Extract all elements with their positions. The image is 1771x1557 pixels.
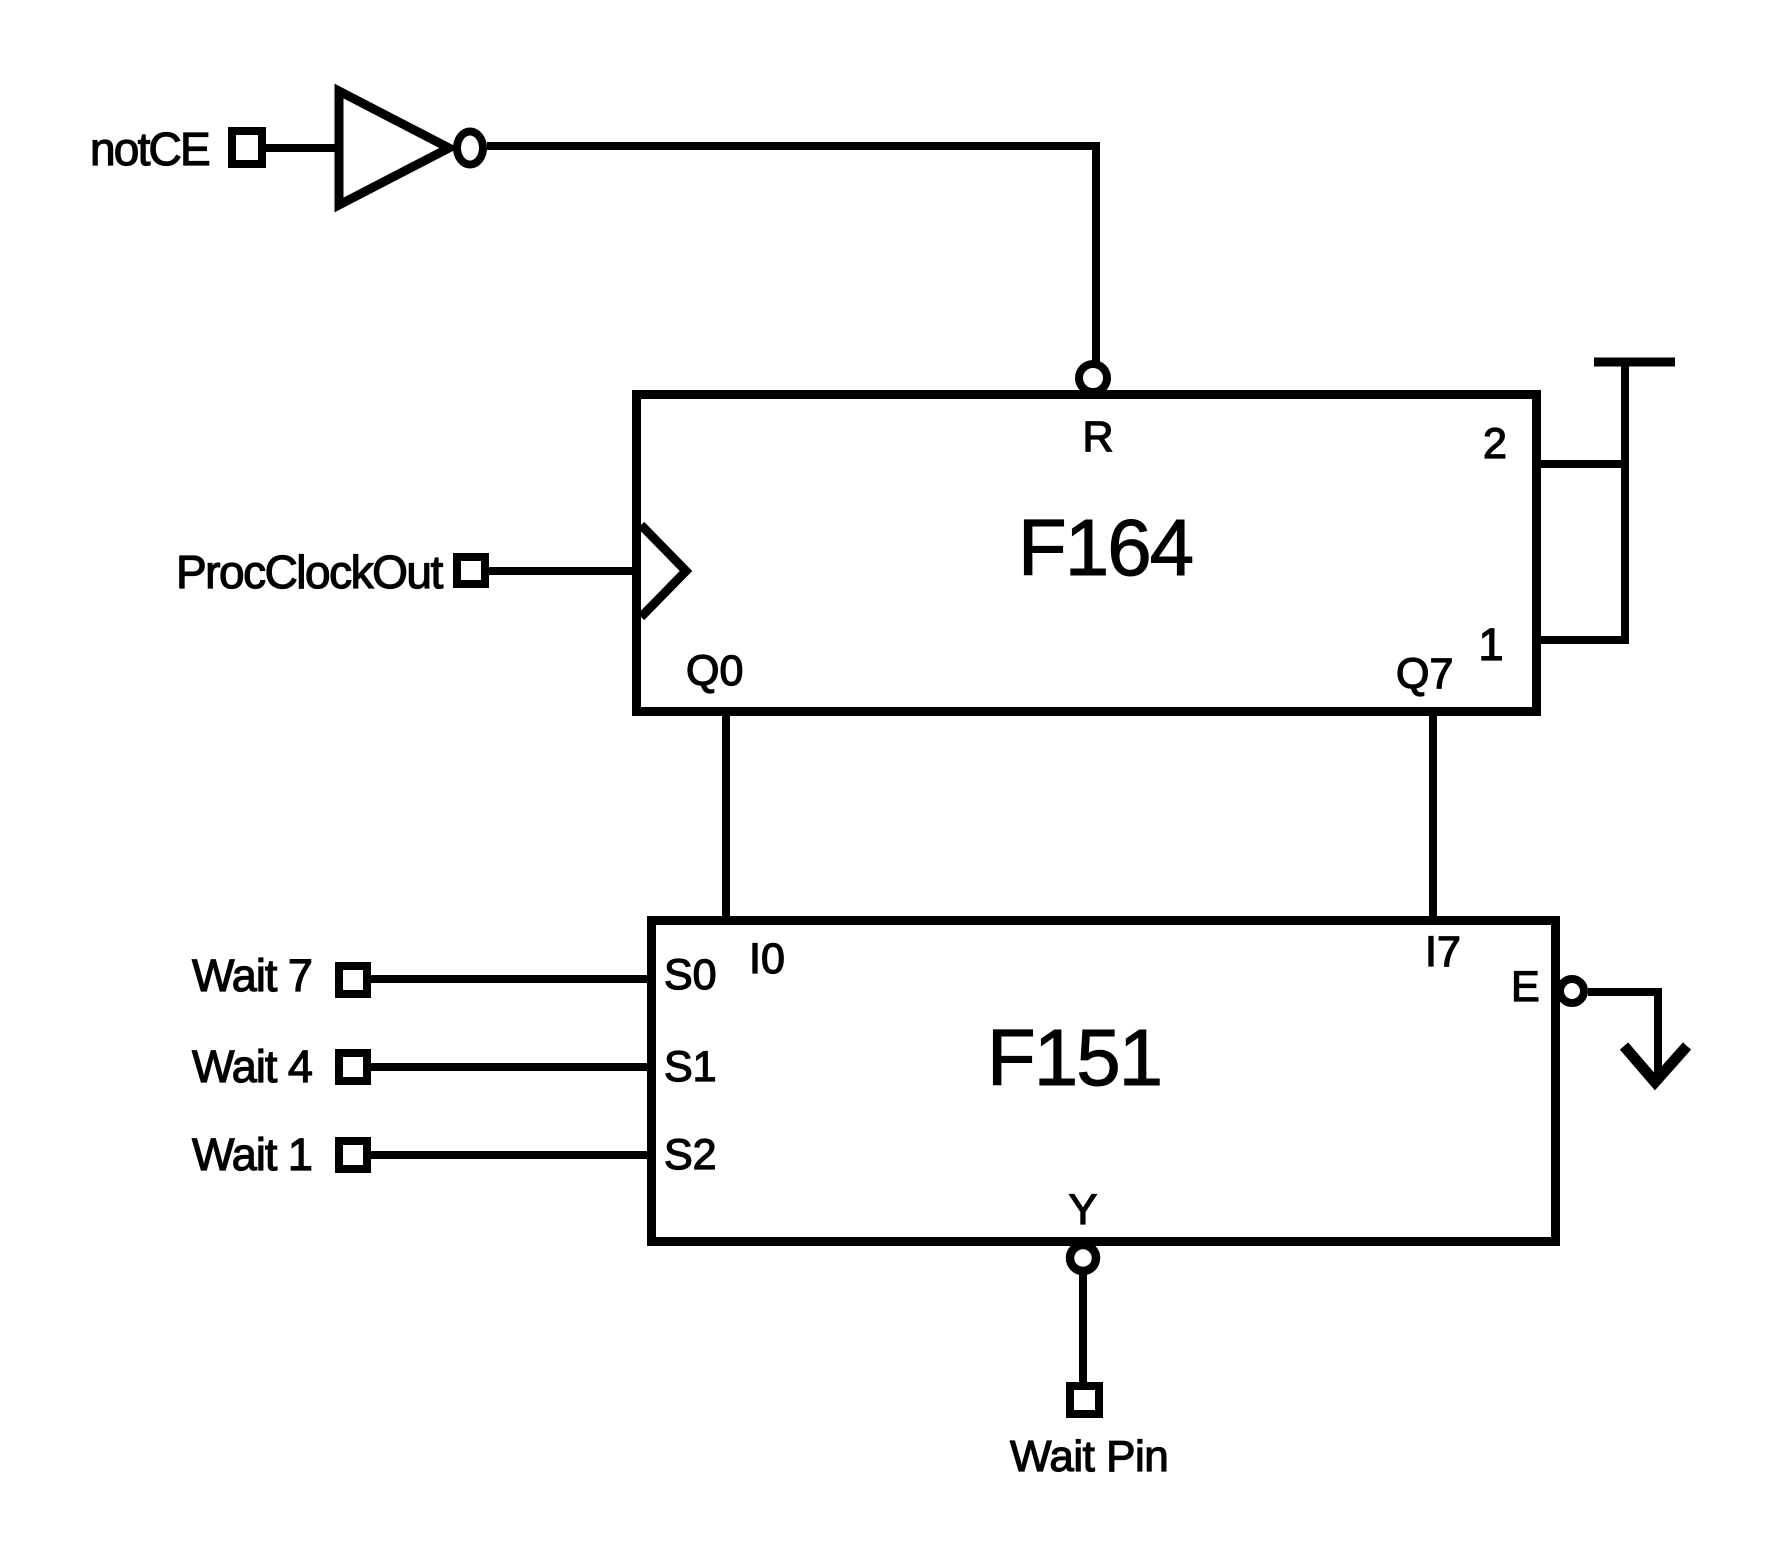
svg-text:R: R	[1082, 413, 1113, 461]
svg-text:Wait 1: Wait 1	[192, 1129, 312, 1180]
svg-text:I0: I0	[749, 935, 785, 983]
svg-text:S2: S2	[664, 1131, 717, 1179]
ground arrow	[1624, 1046, 1687, 1082]
wire Wait 7 to S0	[371, 975, 651, 983]
svg-text:2: 2	[1483, 420, 1507, 468]
pad Wait 4	[339, 1053, 367, 1081]
wire Q7 to I7	[1429, 712, 1437, 924]
IC U2 F151 box	[652, 921, 1556, 1242]
wire E to ground	[1588, 988, 1662, 996]
svg-text:Wait 7: Wait 7	[192, 950, 312, 1001]
svg-text:Wait 4: Wait 4	[192, 1041, 312, 1092]
VCC rail vertical	[1621, 362, 1629, 640]
wire pad to inverter input	[266, 144, 341, 152]
wire Wait 1 to S2	[371, 1151, 651, 1159]
pad Wait Pin	[1070, 1386, 1099, 1414]
clock input chevron	[641, 525, 686, 617]
pad Wait 1	[339, 1141, 367, 1169]
svg-text:Q0: Q0	[686, 647, 743, 695]
svg-text:F164: F164	[1018, 503, 1193, 592]
svg-text:Y: Y	[1069, 1186, 1098, 1234]
svg-text:1: 1	[1478, 619, 1503, 670]
wire down to R	[1092, 146, 1100, 362]
svg-text:E: E	[1511, 963, 1540, 1011]
Y inversion bubble	[1070, 1245, 1096, 1271]
wire pin 1 to VCC rail	[1541, 636, 1629, 644]
inverter U1 output bubble	[457, 132, 483, 165]
wire Wait 4 to S1	[371, 1063, 651, 1071]
wire ground vertical	[1654, 992, 1662, 1076]
VCC T-bar symbol	[1594, 358, 1675, 367]
R inversion bubble	[1079, 364, 1107, 392]
pad Wait 7	[339, 966, 367, 994]
svg-text:notCE: notCE	[90, 123, 209, 175]
IC U1 F164 box	[637, 395, 1537, 712]
svg-text:Wait Pin: Wait Pin	[1010, 1432, 1168, 1481]
svg-text:ProcClockOut: ProcClockOut	[176, 546, 443, 598]
wire pin 2 to VCC rail	[1541, 460, 1625, 468]
svg-text:I7: I7	[1425, 928, 1461, 976]
wire inverter output horizontal	[487, 142, 1100, 150]
svg-text:S1: S1	[664, 1043, 717, 1091]
svg-text:F151: F151	[987, 1013, 1161, 1102]
svg-text:Q7: Q7	[1396, 650, 1453, 698]
pad ProcClockOut	[457, 557, 485, 584]
E inversion bubble	[1560, 979, 1584, 1003]
wire Q0 to I0	[722, 712, 730, 924]
wire ProcClockOut to clock pin	[489, 567, 636, 575]
svg-text:S0: S0	[664, 951, 717, 999]
pad notCE	[232, 131, 262, 164]
inverter U1 triangle	[339, 91, 449, 205]
wire Y to Wait Pin pad	[1079, 1275, 1087, 1382]
